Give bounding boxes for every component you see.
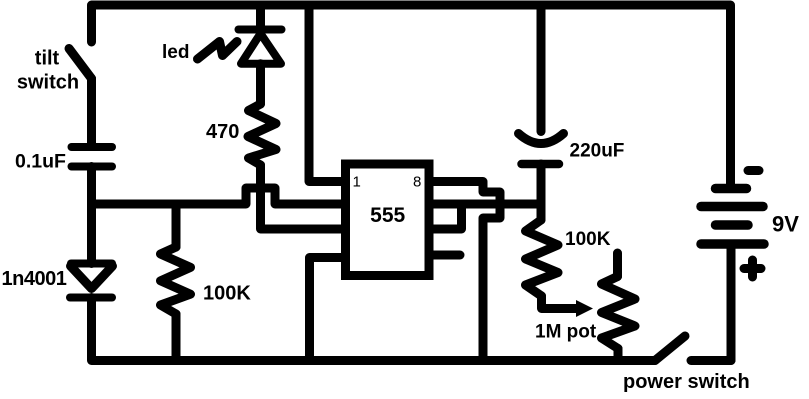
wire diode to bottom rail and bottom rail xyxy=(92,298,656,361)
svg-text:9V: 9V xyxy=(772,212,799,237)
resistor R3 100K right lead xyxy=(537,204,546,220)
wire 555 pin 4 to bottom rail xyxy=(310,258,345,361)
pin 5 stub xyxy=(429,251,460,260)
wire 220uF to pin7 net xyxy=(537,164,546,204)
svg-text:1M pot: 1M pot xyxy=(535,322,597,343)
battery B1 plate 3 short xyxy=(716,220,749,230)
svg-text:led: led xyxy=(162,42,189,63)
resistor R3 100K right zigzag xyxy=(526,220,559,296)
power switch right contact xyxy=(691,356,731,365)
wire 555 pin 7 to 220uF node xyxy=(429,200,541,209)
LED triangle xyxy=(241,34,281,64)
capacitor C1 0.1uF top plate xyxy=(72,143,113,151)
capacitor C1 0.1uF bottom plate xyxy=(72,163,113,171)
wire resistor 470 to 555 pin 3 xyxy=(261,165,345,229)
resistor R1 100K left lead top xyxy=(172,204,181,247)
svg-text:8: 8 xyxy=(413,174,421,191)
IC U1 555 timer box xyxy=(346,164,430,276)
capacitor C2 220uF curved plate xyxy=(519,134,564,144)
wire capacitor to diode (node with trigger wire) xyxy=(87,167,96,264)
battery B1 plate 1 short xyxy=(716,184,747,194)
wire resistor R1 to bottom rail xyxy=(172,314,181,361)
power switch blade xyxy=(655,336,685,361)
svg-text:470: 470 xyxy=(206,121,239,143)
wire 555 pin 8 hop over pin7 wire down to bottom rail xyxy=(429,182,500,361)
svg-text:tilt: tilt xyxy=(35,48,60,70)
svg-text:220uF: 220uF xyxy=(570,141,625,162)
svg-text:555: 555 xyxy=(370,204,405,227)
battery B1 plus sign xyxy=(744,260,761,277)
wire battery minus lead bottom xyxy=(727,244,736,361)
tilt switch xyxy=(69,49,92,79)
wiper wire from 100K to pot arrow xyxy=(542,296,579,309)
wire top rail to 220uF capacitor xyxy=(537,5,546,132)
svg-text:switch: switch xyxy=(17,72,79,94)
potentiometer R4 1M top stub xyxy=(613,253,622,277)
diode D1 1n4001 top bar xyxy=(71,260,112,268)
battery B1 plate 2 long xyxy=(701,202,763,212)
wire top rail to 555 pin 1 xyxy=(309,5,344,182)
potentiometer R4 1M zigzag xyxy=(602,277,636,349)
wire 555 pin 6 up to pin 7 net xyxy=(429,204,462,229)
resistor R2 470 zigzag xyxy=(248,104,276,165)
wiper arrowhead xyxy=(576,300,593,317)
wire LED to resistor 470 xyxy=(256,64,265,104)
LED bar xyxy=(239,26,282,34)
svg-text:100K: 100K xyxy=(565,229,611,250)
svg-text:1n4001: 1n4001 xyxy=(2,268,67,290)
battery B1 minus sign xyxy=(748,166,759,175)
capacitor C2 220uF straight plate xyxy=(522,160,560,169)
battery B1 plate 4 long xyxy=(701,239,764,249)
svg-text:100K: 100K xyxy=(203,283,251,305)
wire top rail to LED xyxy=(256,5,265,30)
wire pot to bottom rail xyxy=(614,349,623,361)
wire tilt switch to capacitor xyxy=(87,79,96,145)
svg-text:1: 1 xyxy=(353,173,361,190)
wire trigger net A with hop over output wire xyxy=(92,188,345,204)
resistor R1 100K left zigzag xyxy=(161,247,191,314)
led arrow squiggle xyxy=(198,42,238,60)
svg-text:power switch: power switch xyxy=(623,371,750,393)
wire top rail and right rail down to battery xyxy=(92,5,731,189)
diode D1 1n4001 cathode bar xyxy=(70,294,112,302)
svg-text:0.1uF: 0.1uF xyxy=(15,151,66,173)
diode D1 1n4001 triangle xyxy=(71,266,113,289)
